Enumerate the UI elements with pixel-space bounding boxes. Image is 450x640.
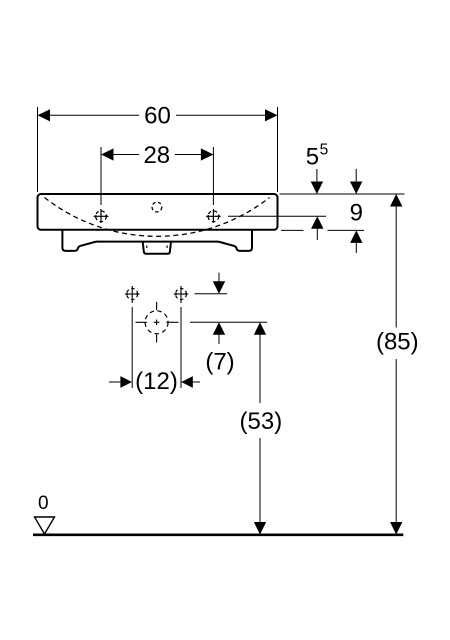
mounting bolt hole left (cross + dashed circle) (125, 286, 140, 303)
dimension 28 extension line left (100, 147, 102, 205)
apron and feet outline under basin (62, 230, 252, 251)
washbasin body outline (38, 194, 278, 230)
dimension 12 line with outside arrows (109, 376, 200, 388)
svg-text:(85): (85) (376, 329, 419, 356)
svg-text:(53): (53) (240, 408, 283, 435)
svg-text:9: 9 (350, 200, 363, 227)
reference line basin top extended right (280, 193, 405, 195)
floor datum triangle (35, 517, 55, 534)
dimension 28 arrow right (201, 148, 214, 160)
dimension 85 vertical line with label (390, 194, 402, 535)
svg-text:60: 60 (144, 103, 171, 130)
svg-text:5: 5 (306, 144, 319, 171)
svg-text:(7): (7) (205, 349, 234, 376)
tap hole right (cross + dashed circle) (205, 209, 221, 223)
svg-text:28: 28 (143, 142, 170, 169)
drain pipe position (dashed circle with centerlines) (136, 302, 179, 343)
dimension 28 arrow left (101, 148, 114, 160)
dimension 60 extension line left (37, 107, 39, 192)
dimension 60 extension line right (277, 107, 279, 192)
svg-text:0: 0 (38, 493, 49, 514)
floor line (33, 533, 403, 536)
dimension 28 extension line right (212, 147, 214, 205)
dimension 60 arrow right (265, 109, 278, 121)
svg-text:(12): (12) (135, 368, 178, 395)
mounting bolt hole right (cross + dashed circle) (173, 286, 188, 303)
dimension 60 arrow left (38, 109, 51, 121)
reference line bolt holes extended right (195, 293, 228, 295)
dimension 53 vertical line with label (254, 322, 266, 534)
dimension 9 arrow down (to basin top line) (350, 169, 362, 194)
drain trap box hidden inner edges (146, 246, 148, 251)
extension line left bolt hole down (131, 307, 133, 388)
reference line basin bottom extended right (281, 229, 364, 231)
reference line tap hole axis extended right (228, 215, 326, 217)
dimension 5.5 arrow up (to tap hole line) (311, 216, 323, 240)
tap hole left (cross + dashed circle) (93, 209, 109, 223)
dimension 9 arrow up (to basin bottom line) (350, 230, 362, 253)
extension line right bolt hole down (180, 307, 182, 388)
drain trap box (143, 242, 171, 254)
svg-text:5: 5 (320, 142, 329, 159)
dimension 7 arrow up (to drain line) (213, 322, 225, 344)
dimension 60 line (39, 114, 277, 116)
dimension 5.5 arrow down (to basin top line) (311, 169, 323, 194)
reference line drain extended right (190, 321, 267, 323)
dimension 28 line (102, 154, 212, 156)
basin inner bowl hidden edge (dashed arc) (45, 198, 270, 237)
overflow hole (dashed circle) (152, 202, 162, 212)
dimension 7 arrow down (to bolt hole line) (213, 273, 225, 294)
